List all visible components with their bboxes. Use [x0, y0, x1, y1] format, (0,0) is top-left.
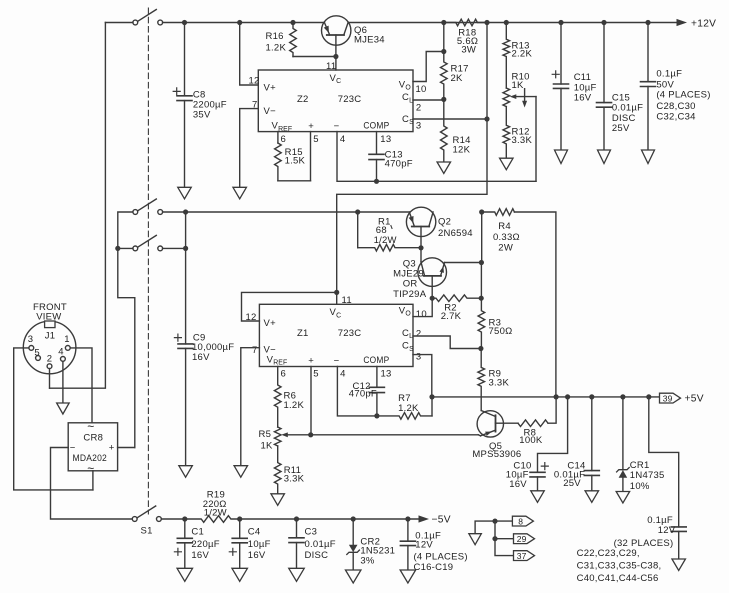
resistor R19 [161, 490, 239, 523]
connector J1 front view [23, 302, 76, 374]
svg-text:3.3K: 3.3K [489, 378, 510, 389]
node 8 [495, 516, 533, 526]
wire [535, 97, 537, 182]
rectifier CR8 MDA202 [68, 420, 117, 490]
wire [413, 355, 432, 397]
svg-text:16V: 16V [192, 352, 210, 363]
wire [337, 132, 536, 184]
svg-text:12V: 12V [658, 525, 676, 536]
wire [118, 447, 135, 449]
resistor R18 [444, 19, 487, 55]
svg-text:25V: 25V [563, 478, 581, 489]
svg-text:2.2K: 2.2K [512, 48, 533, 59]
wire [475, 519, 498, 534]
wire [413, 116, 490, 121]
ground [469, 534, 482, 545]
switch S1 section 1 [105, 10, 162, 25]
svg-text:0.01µF: 0.01µF [305, 539, 336, 550]
switch S1 section 2 [133, 199, 163, 214]
resistor R8 [518, 397, 556, 446]
svg-text:3: 3 [416, 352, 422, 363]
svg-text:4: 4 [340, 369, 346, 380]
capacitor C10 [506, 397, 568, 491]
svg-text:25V: 25V [612, 123, 630, 134]
svg-text:1/2W: 1/2W [204, 508, 227, 519]
svg-text:Z2: Z2 [297, 94, 309, 105]
ground [177, 568, 193, 581]
ground [178, 187, 192, 199]
svg-text:R4: R4 [498, 221, 511, 232]
wire [479, 209, 485, 265]
svg-text:1N4735: 1N4735 [630, 470, 665, 481]
svg-text:R5: R5 [259, 429, 272, 440]
svg-text:220µF: 220µF [191, 539, 219, 550]
wire [348, 22, 676, 24]
svg-text:TIP29A: TIP29A [393, 289, 427, 300]
ground [616, 492, 630, 504]
wire [413, 97, 446, 102]
svg-text:C4: C4 [248, 527, 261, 538]
svg-text:C28,C30: C28,C30 [656, 101, 695, 112]
svg-text:1: 1 [64, 334, 70, 345]
diode CR2 [347, 516, 395, 570]
ground [672, 559, 686, 571]
svg-text:COMP: COMP [363, 355, 389, 366]
resistor R13 [503, 20, 532, 88]
svg-text:12K: 12K [453, 144, 471, 155]
ground [57, 403, 70, 414]
svg-text:Q2: Q2 [438, 217, 451, 228]
svg-text:(4 PLACES): (4 PLACES) [414, 552, 468, 563]
svg-text:−5V: −5V [432, 515, 451, 526]
wire [50, 23, 106, 389]
svg-text:2N6594: 2N6594 [438, 228, 473, 239]
capacitor C12 [349, 367, 385, 419]
wire [241, 348, 260, 466]
ground [585, 491, 599, 503]
svg-text:11: 11 [342, 295, 352, 306]
capacitor C28 C30 C32 C34 [641, 20, 711, 150]
switch S1 section 4 [132, 506, 161, 536]
svg-text:3%: 3% [360, 556, 375, 567]
wire [441, 20, 446, 54]
capacitor C22-C56 (32 places) [577, 397, 687, 584]
svg-text:+12V: +12V [691, 18, 716, 29]
svg-text:13: 13 [381, 369, 392, 380]
svg-text:4: 4 [340, 134, 346, 145]
ground [289, 568, 305, 581]
svg-text:2: 2 [416, 103, 422, 114]
wire [70, 348, 92, 423]
transistor Q6 [322, 16, 385, 59]
svg-text:470pF: 470pF [385, 158, 413, 169]
svg-text:DISC: DISC [305, 550, 329, 561]
svg-text:3.3K: 3.3K [284, 474, 305, 485]
wire [337, 20, 490, 293]
svg-text:10: 10 [416, 309, 427, 320]
wire [335, 57, 337, 71]
ground [232, 568, 248, 581]
svg-text:11: 11 [326, 61, 336, 72]
capacitor C1 [174, 516, 219, 568]
potentiometer R5 [259, 427, 311, 451]
svg-text:C40,C41,C44-C56: C40,C41,C44-C56 [577, 573, 659, 584]
svg-text:3.3K: 3.3K [512, 135, 533, 146]
resistor R16 [266, 20, 336, 57]
svg-text:V+: V+ [264, 318, 277, 329]
svg-text:1.2K: 1.2K [284, 400, 305, 411]
capacitor C9 [174, 209, 234, 465]
svg-text:1K: 1K [512, 80, 525, 91]
svg-text:7: 7 [252, 345, 258, 356]
svg-text:5: 5 [313, 134, 319, 145]
capacitor C8 [173, 20, 227, 187]
svg-text:5: 5 [34, 348, 40, 359]
ground [234, 466, 248, 478]
svg-text:CR8: CR8 [83, 433, 103, 444]
svg-text:C16-C19: C16-C19 [414, 562, 454, 573]
svg-text:V+: V+ [264, 83, 277, 94]
svg-text:MJE34: MJE34 [354, 35, 385, 46]
svg-text:10: 10 [416, 84, 427, 95]
ground [500, 158, 514, 170]
capacitor C13 [369, 132, 413, 182]
svg-text:16V: 16V [574, 92, 592, 103]
svg-text:3: 3 [416, 120, 422, 131]
svg-text:750Ω: 750Ω [489, 326, 513, 337]
svg-text:3: 3 [28, 334, 34, 345]
ground [598, 150, 611, 164]
wire [237, 20, 258, 85]
svg-text:2W: 2W [498, 243, 513, 254]
diode CR1 [617, 397, 665, 492]
ground [642, 150, 655, 164]
wire [337, 367, 377, 416]
capacitor C11 [552, 20, 596, 150]
svg-text:+: + [308, 121, 314, 132]
svg-text:+: + [308, 355, 314, 366]
node 37 [495, 539, 535, 561]
capacitor C16-C19 [400, 516, 467, 573]
svg-text:5: 5 [313, 369, 319, 380]
resistor R1 [355, 209, 421, 251]
ground [400, 570, 416, 583]
svg-text:Z1: Z1 [297, 328, 309, 339]
svg-text:6: 6 [281, 134, 287, 145]
resistor R4 [482, 209, 520, 254]
wire [514, 212, 556, 397]
resistor R14 [441, 99, 471, 162]
svg-text:VIEW: VIEW [36, 311, 61, 322]
svg-text:37: 37 [517, 551, 527, 561]
svg-text:10µF: 10µF [248, 539, 271, 550]
wire [115, 212, 135, 448]
wire [147, 8, 149, 514]
wire [163, 211, 410, 213]
svg-text:J1: J1 [45, 331, 56, 342]
svg-text:1.2K: 1.2K [398, 403, 419, 414]
wire [14, 348, 93, 490]
svg-text:16V: 16V [191, 550, 209, 561]
resistor R17 [441, 52, 469, 100]
ground [179, 466, 193, 478]
svg-text:0.01µF: 0.01µF [612, 103, 643, 114]
wire [163, 22, 325, 24]
resistor R15 [275, 132, 311, 181]
ground [345, 570, 361, 583]
wire [51, 448, 133, 520]
capacitor C15 [597, 20, 644, 150]
svg-text:2: 2 [47, 353, 53, 364]
svg-text:R16: R16 [266, 31, 284, 42]
capacitor C14 [554, 397, 599, 491]
svg-text:470pF: 470pF [349, 388, 377, 399]
svg-text:39: 39 [663, 394, 673, 404]
svg-text:2.7K: 2.7K [441, 311, 462, 322]
svg-text:6: 6 [281, 369, 287, 380]
svg-text:3W: 3W [461, 45, 476, 56]
wire [413, 298, 432, 316]
svg-text:S1: S1 [141, 525, 153, 536]
svg-text:2: 2 [416, 329, 422, 340]
svg-text:13: 13 [380, 134, 391, 145]
svg-text:COMP: COMP [363, 121, 389, 132]
svg-text:C31,C33,C35-C38,: C31,C33,C35-C38, [577, 561, 662, 572]
resistor R2 [430, 295, 484, 322]
svg-text:−: − [334, 121, 340, 132]
ground [531, 491, 545, 503]
svg-text:8: 8 [518, 517, 523, 527]
svg-text:(4 PLACES): (4 PLACES) [656, 90, 710, 101]
wire [240, 109, 259, 188]
svg-text:−: − [334, 355, 340, 366]
node -5V [419, 515, 451, 526]
transistor Q3 [393, 248, 481, 300]
capacitor C4 [229, 516, 270, 568]
svg-text:2K: 2K [451, 73, 464, 84]
wire [413, 336, 484, 351]
svg-text:2200µF: 2200µF [193, 99, 227, 110]
wire [242, 290, 340, 321]
resistor R12 [503, 107, 532, 159]
wire [308, 367, 313, 438]
resistor R11 [274, 446, 304, 494]
resistor R7 [377, 393, 432, 419]
wire [49, 369, 51, 389]
svg-text:−: − [70, 443, 76, 454]
svg-text:+: + [109, 443, 115, 454]
wire [311, 434, 479, 436]
svg-text:723C: 723C [338, 94, 362, 105]
resistor R3 [478, 263, 512, 349]
svg-text:10%: 10% [630, 481, 650, 492]
resistor R6 [274, 367, 304, 428]
svg-text:4: 4 [58, 347, 64, 358]
svg-text:1K: 1K [261, 440, 274, 451]
potentiometer R10 [503, 72, 536, 108]
ground [437, 162, 451, 174]
svg-text:0.1µF: 0.1µF [656, 69, 682, 80]
svg-text:+5V: +5V [685, 393, 704, 404]
svg-text:16V: 16V [248, 550, 266, 561]
wire [413, 52, 444, 82]
svg-text:12V: 12V [415, 539, 433, 550]
svg-text:1.2K: 1.2K [266, 43, 287, 54]
svg-text:100K: 100K [519, 435, 543, 446]
node 39 +5V [660, 393, 704, 404]
svg-text:29: 29 [517, 534, 527, 544]
node +12V [677, 18, 717, 29]
svg-text:35V: 35V [193, 110, 211, 121]
capacitor C3 [289, 516, 336, 568]
svg-text:C1: C1 [191, 527, 204, 538]
svg-text:16V: 16V [509, 479, 527, 490]
resistor R9 [478, 349, 510, 411]
svg-text:1/2W: 1/2W [374, 235, 397, 246]
wire [310, 132, 312, 181]
svg-text:1.5K: 1.5K [285, 156, 306, 167]
svg-text:0.33Ω: 0.33Ω [493, 232, 520, 243]
ground [555, 150, 568, 164]
svg-text:C3: C3 [305, 527, 318, 538]
svg-text:V−: V− [264, 106, 277, 117]
node +5V line [429, 394, 659, 399]
svg-text:12: 12 [249, 76, 260, 87]
svg-text:C32,C34: C32,C34 [656, 112, 695, 123]
svg-text:MPS53906: MPS53906 [472, 449, 521, 460]
wire [240, 518, 419, 520]
ground [233, 187, 247, 199]
node 29 [492, 521, 534, 544]
switch S1 section 3 [118, 235, 188, 251]
ground [271, 494, 285, 506]
transistor Q5 [472, 411, 521, 460]
svg-text:12: 12 [246, 312, 257, 323]
svg-text:~: ~ [87, 420, 94, 434]
svg-text:723C: 723C [338, 328, 362, 339]
transistor Q2 [406, 207, 472, 250]
regulator Z1 723C [246, 295, 427, 379]
svg-text:C22,C23,C29,: C22,C23,C29, [577, 548, 640, 559]
wire [62, 361, 64, 403]
regulator Z2 723C [249, 61, 427, 145]
